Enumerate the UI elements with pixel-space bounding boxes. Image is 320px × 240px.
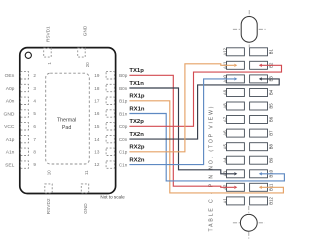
wire RX1p: pin 17 B1p to connector pad B11 (orange) [129, 94, 283, 193]
connector pad A4 (left column row 9) [222, 156, 244, 164]
svg-text:7: 7 [33, 137, 36, 142]
mounting hole M1 (oval, top) centerlines [233, 10, 266, 47]
svg-text:4: 4 [33, 99, 36, 104]
svg-text:A8: A8 [222, 103, 227, 109]
connector pad B1 (right column row 1) [250, 48, 274, 56]
svg-text:C0p: C0p [119, 124, 128, 129]
connector pad B3 (right column row 3) [250, 75, 274, 83]
svg-text:A0n: A0n [6, 99, 15, 105]
svg-text:C1p: C1p [119, 150, 128, 155]
svg-text:13: 13 [94, 150, 100, 155]
connector pad B11 (right column row 11) [250, 183, 274, 191]
svg-text:A1n: A1n [6, 150, 15, 156]
svg-text:RSVD2: RSVD2 [46, 198, 51, 214]
svg-text:19: 19 [94, 73, 100, 78]
mounting hole M2 (circle, bottom) [240, 214, 257, 231]
svg-text:SEL: SEL [5, 162, 15, 168]
connector pad A12 (left column row 1) [222, 47, 244, 55]
svg-text:20: 20 [85, 62, 90, 67]
IC U1 (QFN-20 USB mux) package outline [20, 48, 116, 194]
svg-text:15: 15 [94, 124, 100, 129]
pin 19 pad (B0p) [94, 72, 127, 79]
pin 12 pad (C1n) [94, 161, 127, 168]
pin 18 pad (B0n) [94, 84, 127, 91]
connector pad B6 (right column row 6) [250, 116, 274, 124]
svg-text:RX1n: RX1n [129, 107, 144, 113]
connector pad A9 (left column row 4) [222, 89, 244, 97]
wire TX2n: pin 14 C0n to connector pad B3 (dark navy) [129, 77, 279, 139]
pin 13 pad (C1p) [94, 148, 127, 155]
pin 9 pad (SEL) [5, 161, 36, 169]
svg-text:B8: B8 [268, 143, 273, 149]
connector pad A3 (left column row 10) [222, 170, 244, 178]
svg-text:C0n: C0n [119, 137, 128, 142]
svg-text:TX1p: TX1p [129, 68, 144, 74]
svg-text:A1p: A1p [6, 137, 15, 143]
svg-text:12: 12 [94, 162, 100, 167]
svg-text:A0p: A0p [6, 86, 15, 92]
svg-text:A1: A1 [222, 198, 227, 204]
svg-text:TX2n: TX2n [129, 132, 144, 138]
wire RX1n: pin 16 B1n to connector pad B10 (blue) [129, 107, 284, 181]
svg-text:TX1n: TX1n [129, 81, 144, 87]
svg-text:B0n: B0n [119, 86, 128, 91]
svg-text:9: 9 [33, 162, 36, 167]
pin 2 pad (OEn) [5, 72, 37, 80]
svg-text:C1n: C1n [119, 162, 128, 167]
svg-text:A7: A7 [222, 116, 227, 122]
svg-text:A5: A5 [222, 143, 227, 149]
wire TX1p: pin 19 B0p to connector pad A2 (red) [129, 68, 237, 189]
pin 20 pad (GND), top-right [78, 25, 90, 67]
svg-text:14: 14 [94, 137, 100, 142]
wire TX2p: pin 15 C0p to connector pad B2 (red) [129, 64, 281, 127]
svg-text:B1n: B1n [119, 111, 128, 116]
svg-text:GND: GND [83, 203, 88, 214]
mounting hole M2 (circle, bottom) centerlines [233, 206, 265, 239]
svg-text:B5: B5 [268, 103, 273, 109]
svg-text:18: 18 [94, 86, 100, 91]
svg-text:B1: B1 [268, 49, 273, 55]
pin 3 pad (A0p) [6, 84, 37, 92]
svg-text:RX2p: RX2p [129, 145, 144, 151]
mounting hole M1 (oval, top) [241, 17, 257, 43]
svg-text:RSVD1: RSVD1 [45, 26, 50, 42]
svg-text:Thermal: Thermal [57, 118, 76, 124]
connector pad B8 (right column row 8) [250, 143, 274, 151]
svg-text:B9: B9 [268, 157, 273, 163]
svg-text:A4: A4 [222, 157, 227, 163]
pin 1 pad (RSVD1), top-left [44, 26, 52, 65]
connector pad A8 (left column row 5) [222, 102, 244, 110]
svg-text:TX2p: TX2p [129, 119, 144, 125]
connector pad B12 (right column row 12) [250, 196, 274, 204]
connector pad A11 (left column row 2) [222, 61, 244, 69]
svg-text:OEn: OEn [5, 73, 15, 79]
pin 16 pad (B1n) [94, 110, 127, 117]
svg-text:GND: GND [4, 111, 15, 117]
pin 6 pad (VCC) [4, 123, 36, 131]
pin 15 pad (C0p) [94, 123, 127, 130]
svg-text:Not to scale: Not to scale [100, 194, 125, 199]
svg-text:A12: A12 [222, 47, 227, 55]
pin 17 pad (B1p) [94, 97, 127, 104]
svg-text:RX2n: RX2n [129, 158, 144, 164]
pin 7 pad (A1p) [6, 135, 37, 143]
wire TX1n: pin 18 B0n to connector pad A3 (dark navy) [129, 81, 237, 176]
svg-text:Pad: Pad [62, 125, 71, 131]
connector pad B10 (right column row 10) [250, 169, 274, 177]
svg-text:8: 8 [33, 150, 36, 155]
connector pad A6 (left column row 7) [222, 129, 244, 137]
svg-text:16: 16 [94, 111, 100, 116]
connector pad A2 (left column row 11) [222, 183, 244, 191]
connector pad B4 (right column row 4) [250, 89, 274, 97]
svg-text:10: 10 [46, 170, 51, 175]
svg-text:B1p: B1p [119, 99, 128, 104]
pin 8 pad (A1n) [6, 148, 37, 156]
svg-text:RX1p: RX1p [129, 94, 144, 100]
svg-text:11: 11 [84, 170, 89, 175]
connector pad A1 (left column row 12) [222, 197, 244, 205]
pin 11 pad (GND), bottom-right [81, 170, 89, 214]
svg-text:6: 6 [33, 124, 36, 129]
svg-text:A6: A6 [222, 130, 227, 136]
thermal pad (exposed pad) [46, 73, 90, 164]
svg-text:B7: B7 [268, 130, 273, 136]
connector pad A5 (left column row 8) [222, 143, 244, 151]
connector pad B7 (right column row 7) [250, 129, 274, 137]
connector pad A10 (left column row 3) [222, 74, 244, 82]
svg-text:3: 3 [33, 86, 36, 91]
svg-text:17: 17 [94, 99, 100, 104]
pin 14 pad (C0n) [94, 135, 127, 142]
svg-text:B6: B6 [268, 116, 273, 122]
svg-text:B4: B4 [268, 89, 273, 95]
svg-text:5: 5 [33, 111, 36, 116]
svg-text:B0p: B0p [119, 73, 128, 78]
pin 4 pad (A0n) [6, 97, 37, 105]
connector pad B5 (right column row 5) [250, 102, 274, 110]
svg-text:B12: B12 [268, 196, 273, 204]
pin 1 indicator circle [25, 52, 31, 58]
connector pad B2 (right column row 2) [250, 61, 274, 69]
connector pad B9 (right column row 9) [250, 156, 274, 164]
wire RX2n: pin 12 C1n to connector pad A10 (blue) [129, 77, 237, 164]
wire RX2p: pin 13 C1p to connector pad A11 (orange) [129, 64, 237, 152]
pin 10 pad (RSVD2), bottom-left [45, 170, 52, 214]
svg-text:A9: A9 [222, 89, 227, 95]
svg-text:GND: GND [82, 25, 87, 36]
pin 5 pad (GND) [4, 110, 37, 118]
connector pad A7 (left column row 6) [222, 116, 244, 124]
svg-text:TABLE C - PIN NO. (TOP VIEW): TABLE C - PIN NO. (TOP VIEW) [208, 106, 214, 231]
svg-text:2: 2 [33, 73, 36, 78]
svg-text:VCC: VCC [4, 124, 15, 130]
